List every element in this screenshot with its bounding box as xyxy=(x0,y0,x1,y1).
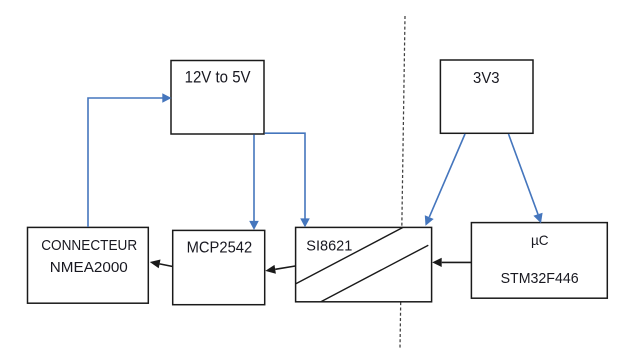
dashed isolation barrier line xyxy=(400,16,405,348)
blue wire: CONNECTEUR top up and right into 12V to 5V (elbow with arrow) xyxy=(88,93,172,227)
svg-text:CONNECTEUR: CONNECTEUR xyxy=(41,238,137,254)
block 12V to 5V xyxy=(171,61,264,135)
svg-text:NMEA2000: NMEA2000 xyxy=(50,260,128,276)
svg-text:MCP2542: MCP2542 xyxy=(187,240,253,257)
blue wire: 12V to 5V right and down to SI8621 (elbow with arrow) xyxy=(265,133,310,227)
svg-text:µC: µC xyxy=(531,232,549,248)
black wire: SI8621 to MCP2542 (arrow left) xyxy=(265,265,295,274)
block MCP2542 xyxy=(173,230,265,304)
block 3V3 xyxy=(440,60,533,133)
svg-text:SI8621: SI8621 xyxy=(306,239,352,255)
block CONNECTEUR NMEA2000 xyxy=(28,227,149,303)
black wire: MCP2542 to CONNECTEUR (arrow left) xyxy=(150,260,173,269)
blue wire: 3V3 down-left to SI8621 (arrow) xyxy=(425,134,465,226)
blue wire: 12V to 5V down to MCP2542 (arrow) xyxy=(249,135,259,231)
svg-text:3V3: 3V3 xyxy=(473,70,500,87)
blue wire: 3V3 down-right to uC (arrow) xyxy=(509,134,543,223)
block SI8621 isolator xyxy=(296,227,432,301)
black wire: uC to SI8621 (arrow left) xyxy=(432,258,471,267)
isolator diagonal line 2 xyxy=(321,245,428,302)
svg-text:STM32F446: STM32F446 xyxy=(501,271,579,287)
block uC STM32F446 xyxy=(471,223,607,299)
isolator diagonal line 1 xyxy=(296,227,403,284)
svg-text:12V to 5V: 12V to 5V xyxy=(185,68,251,86)
